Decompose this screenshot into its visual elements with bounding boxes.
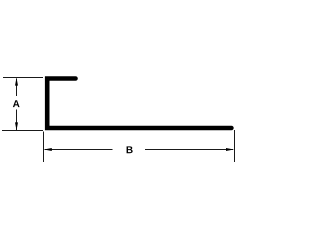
extension line top left <box>3 77 43 79</box>
dimension A line upper segment <box>16 79 18 97</box>
arrowhead A up <box>15 78 18 86</box>
J-profile thick outline <box>47 79 231 129</box>
extension line vertical left (B) <box>43 132 45 163</box>
extension line bottom left <box>2 130 43 132</box>
dimension A line lower segment <box>16 110 18 131</box>
dimension B line left segment <box>45 149 113 151</box>
label B <box>127 146 133 153</box>
arrowhead B right <box>226 148 234 151</box>
extension line vertical right (B) <box>234 130 236 162</box>
arrowhead A down <box>15 122 18 130</box>
arrowhead B left <box>44 148 52 151</box>
dimension B line right segment <box>145 149 233 151</box>
label A <box>13 100 20 107</box>
